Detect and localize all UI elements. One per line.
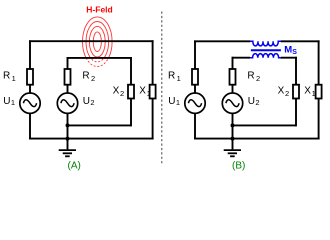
reactance X1 (B) <box>316 85 322 99</box>
wire: inner loop bottom (B) <box>233 124 297 126</box>
wire: inner loop left upper (A) <box>67 57 69 70</box>
reactance X2 (A) <box>128 85 134 99</box>
node: ground junction on bottom wire (B) <box>231 137 235 141</box>
wire: inner loop right lower (A) <box>130 98 132 126</box>
source U2 (A) <box>57 93 77 113</box>
wire: R2 to U2 (B) <box>232 84 234 94</box>
node: U2/inner-bottom junction (B) <box>231 123 235 127</box>
ground (B) <box>224 139 241 157</box>
wire: outer loop bottom (B) <box>194 138 320 140</box>
svg-text:R1: R1 <box>3 70 16 83</box>
wire: inner loop top left segment (B) <box>232 57 250 59</box>
wire: outer loop left upper (B) <box>194 40 196 69</box>
resistor R2 (A) <box>65 69 71 85</box>
inductor: secondary coil of Ms (B) <box>250 54 281 58</box>
svg-text:U1: U1 <box>3 96 15 107</box>
wire: node to ground node (A) <box>67 125 69 138</box>
svg-text:(A): (A) <box>68 160 81 171</box>
wire: outer loop right lower (A) <box>152 98 154 139</box>
magnetic field lines (dashed lower arcs) <box>83 17 113 67</box>
svg-text:X2: X2 <box>278 86 290 98</box>
wire: inner loop right upper (A) <box>130 57 132 85</box>
wire: inner loop left upper (B) <box>232 57 234 70</box>
wire: R1 to U1 (B) <box>194 84 196 94</box>
svg-text:MS: MS <box>284 44 297 56</box>
wire: outer loop right upper (A) <box>152 40 154 85</box>
resistor R1 (A) <box>27 69 33 85</box>
wire: inner loop right upper (B) <box>295 57 297 85</box>
ground (A) <box>59 139 76 157</box>
resistor R1 (B) <box>192 69 198 85</box>
wire: U1 to bottom (B) <box>194 113 196 140</box>
svg-text:H-Feld: H-Feld <box>86 4 112 14</box>
node: ground junction on bottom wire (A) <box>66 137 70 141</box>
wire: U2 to node (B) <box>232 113 234 126</box>
wire: inner loop bottom (A) <box>68 124 132 126</box>
inductor: primary coil of Ms (B) <box>250 41 281 46</box>
svg-text:R2: R2 <box>247 70 260 83</box>
wire: node to ground node (B) <box>232 125 234 138</box>
source U1 (A) <box>20 93 40 113</box>
wire: inner loop right lower (B) <box>295 98 297 126</box>
divider dashed line <box>161 12 163 166</box>
wire: outer loop right upper (B) <box>318 40 320 85</box>
resistor R2 (B) <box>230 69 236 85</box>
reactance X1 (A) <box>150 85 156 99</box>
wire: outer loop bottom (A) <box>29 138 154 140</box>
wire: outer loop top right segment (B) <box>281 40 320 42</box>
svg-text:(B): (B) <box>232 160 245 171</box>
wire: outer loop right lower (B) <box>318 98 320 139</box>
wire: outer loop top (A) <box>29 40 154 42</box>
wire: U1 to bottom (A) <box>29 113 31 140</box>
wire: R2 to U2 (A) <box>67 84 69 94</box>
svg-text:X2: X2 <box>113 86 125 98</box>
svg-text:R2: R2 <box>82 70 95 83</box>
svg-text:U2: U2 <box>83 96 95 107</box>
wire: U2 to node (A) <box>67 113 69 126</box>
source U2 (B) <box>222 93 242 113</box>
wire: R1 to U1 (A) <box>29 84 31 94</box>
wire: inner loop top right segment (B) <box>281 57 297 59</box>
source U1 (B) <box>185 93 205 113</box>
node: U2/inner-bottom junction (A) <box>66 123 70 127</box>
svg-text:R1: R1 <box>168 70 181 83</box>
reactance X2 (B) <box>293 85 299 99</box>
wire: outer loop top left segment (B) <box>194 40 250 42</box>
wire: outer loop left upper (A) <box>29 40 31 69</box>
wire: inner loop top (A) <box>67 57 132 59</box>
transformer core of Ms (B) <box>251 49 281 51</box>
svg-text:U1: U1 <box>168 96 180 107</box>
magnetic field lines (solid upper arcs) <box>83 17 113 67</box>
svg-text:U2: U2 <box>248 96 260 107</box>
svg-text:X1: X1 <box>304 86 316 98</box>
